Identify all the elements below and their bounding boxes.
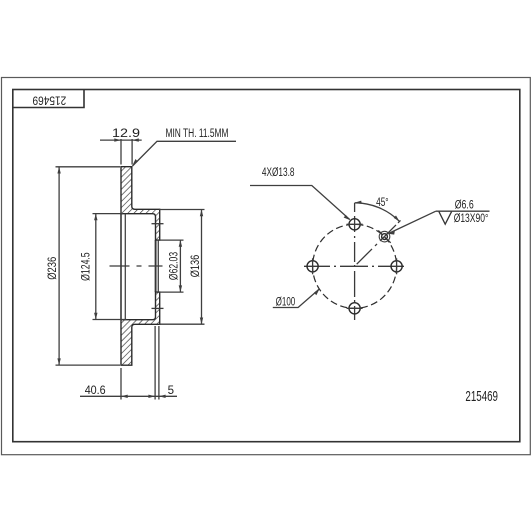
bolt hole centerline upper (section)	[152, 223, 164, 225]
perpendicular tick of locating hole	[378, 230, 390, 242]
inner frame	[13, 90, 520, 442]
countersink circle D13	[379, 231, 390, 242]
svg-text:4XØ13.8: 4XØ13.8	[262, 167, 295, 179]
svg-text:MIN TH. 11.5MM: MIN TH. 11.5MM	[166, 128, 229, 140]
hole region silhouette lines	[154, 240, 156, 292]
svg-text:215469: 215469	[32, 93, 66, 107]
svg-text:45°: 45°	[376, 197, 389, 209]
svg-text:Ø100: Ø100	[276, 296, 296, 308]
title block box	[13, 90, 84, 108]
svg-text:Ø236: Ø236	[45, 257, 59, 280]
section upper half hatched profile	[121, 167, 160, 240]
dimension D62.03	[159, 240, 184, 292]
svg-text:Ø62.03: Ø62.03	[167, 252, 181, 280]
hat inner silhouette line	[124, 214, 126, 320]
svg-text:215469: 215469	[465, 388, 498, 405]
bolt hole top	[349, 219, 360, 230]
45deg angle arc	[355, 203, 400, 222]
vertical centerline	[354, 203, 356, 320]
outer frame	[2, 78, 531, 455]
countersink V symbol	[439, 212, 452, 225]
bolt hole right	[391, 261, 402, 272]
leader MIN TH. 11.5MM	[133, 141, 237, 166]
locating hole D6.6 at 45deg	[382, 234, 388, 240]
bolt hole left	[307, 261, 318, 272]
horizontal centerline	[304, 265, 404, 267]
disc left face silhouette line	[120, 214, 122, 320]
main centerline	[110, 265, 163, 267]
svg-text:40.6: 40.6	[85, 385, 106, 397]
svg-text:Ø13X90°: Ø13X90°	[454, 213, 489, 225]
dimension 12.9	[100, 138, 142, 164]
svg-text:12.9: 12.9	[112, 128, 140, 140]
section lower half hatched profile	[121, 292, 160, 365]
svg-text:Ø6.6: Ø6.6	[455, 199, 474, 211]
bolt hole bottom	[349, 303, 360, 314]
dimension D236	[56, 167, 121, 365]
dimension D124.5	[93, 214, 127, 320]
bolt hole centerline lower (section)	[152, 307, 164, 309]
dimension D136	[159, 210, 205, 325]
bolt circle D100 dashed	[313, 224, 397, 308]
svg-text:Ø136: Ø136	[188, 255, 202, 278]
diagonal centerline 45deg	[357, 220, 401, 264]
dimension 40.6 and 5	[80, 326, 177, 400]
svg-text:5: 5	[168, 385, 174, 397]
svg-text:Ø124.5: Ø124.5	[78, 252, 92, 281]
